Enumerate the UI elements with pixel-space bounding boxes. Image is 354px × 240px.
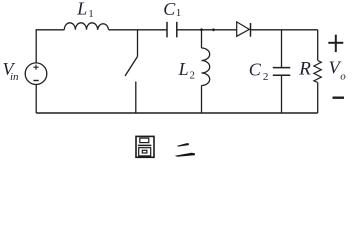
svg-text:o: o <box>340 71 346 83</box>
capacitor C2 plates <box>273 68 291 76</box>
inductor L2 upper stem <box>201 30 203 48</box>
diode D triangle <box>237 22 250 36</box>
capacitor C1 plates <box>167 22 177 38</box>
svg-text:1: 1 <box>176 7 182 19</box>
capacitor C2 lower stem <box>281 75 283 113</box>
junction node on top wire <box>212 28 215 31</box>
wire from C1 to diode D <box>177 29 237 31</box>
svg-text:C: C <box>163 0 176 19</box>
svg-text:2: 2 <box>263 71 269 83</box>
label Vin <box>3 59 20 83</box>
caption character 圖 <box>136 136 154 157</box>
svg-text:C: C <box>249 60 262 80</box>
capacitor C2 upper stem <box>281 30 283 68</box>
label L1 <box>76 0 94 20</box>
minus sign inside Vin source <box>33 80 38 82</box>
output plus sign <box>328 35 343 52</box>
svg-text:R: R <box>298 59 311 80</box>
diode D cathode bar <box>250 23 252 37</box>
switch S blade <box>125 57 138 77</box>
wire from diode D to resistor R <box>251 29 318 31</box>
wire top-left from Vin corner to L1 <box>36 30 64 63</box>
resistor R zigzag <box>314 61 321 83</box>
output minus sign <box>333 96 345 98</box>
svg-text:L: L <box>178 59 189 79</box>
label C1 <box>163 0 181 19</box>
inductor L2 coil <box>202 48 210 86</box>
voltage source Vin <box>25 63 47 85</box>
wire from Vin source to bottom rail <box>35 85 37 114</box>
switch S upper stem <box>137 30 139 57</box>
plus sign inside Vin source <box>33 65 38 70</box>
junction node at L2 top <box>200 28 203 31</box>
inductor L2 lower stem <box>201 86 203 114</box>
svg-text:2: 2 <box>190 69 196 81</box>
wire bottom rail <box>36 112 318 114</box>
svg-text:L: L <box>76 0 87 19</box>
svg-text:1: 1 <box>88 8 94 20</box>
label C2 <box>249 60 269 84</box>
resistor R upper stem <box>317 30 319 61</box>
caption character 二 <box>175 143 195 157</box>
wire from L1 to C1 left plate <box>109 29 167 31</box>
label L2 <box>178 59 195 81</box>
label Vo <box>329 57 347 82</box>
resistor R lower stem <box>317 83 319 114</box>
svg-text:in: in <box>10 71 19 83</box>
inductor L1 <box>64 23 108 30</box>
switch S lower stem <box>135 82 137 114</box>
